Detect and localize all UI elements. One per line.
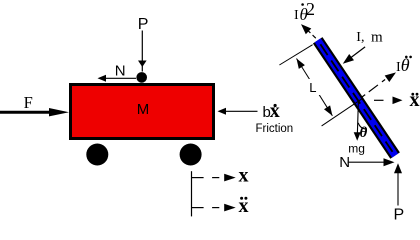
svg-text:m: m — [371, 29, 383, 45]
svg-text:Friction: Friction — [256, 123, 294, 135]
svg-text:θ: θ — [401, 55, 410, 75]
svg-text:F: F — [24, 93, 33, 112]
svg-text:2: 2 — [306, 0, 315, 19]
svg-text:I: I — [294, 8, 299, 23]
svg-text:I,: I, — [356, 30, 364, 45]
svg-text:mg: mg — [348, 142, 365, 156]
svg-text:L: L — [309, 80, 316, 95]
svg-text:x: x — [410, 89, 420, 111]
svg-text:P: P — [138, 16, 149, 33]
svg-text:N: N — [115, 62, 126, 79]
svg-text:P: P — [394, 206, 405, 222]
svg-text:θ: θ — [360, 125, 368, 141]
svg-text:x: x — [270, 100, 280, 122]
svg-text:M: M — [137, 101, 150, 118]
svg-text:x: x — [239, 165, 249, 187]
